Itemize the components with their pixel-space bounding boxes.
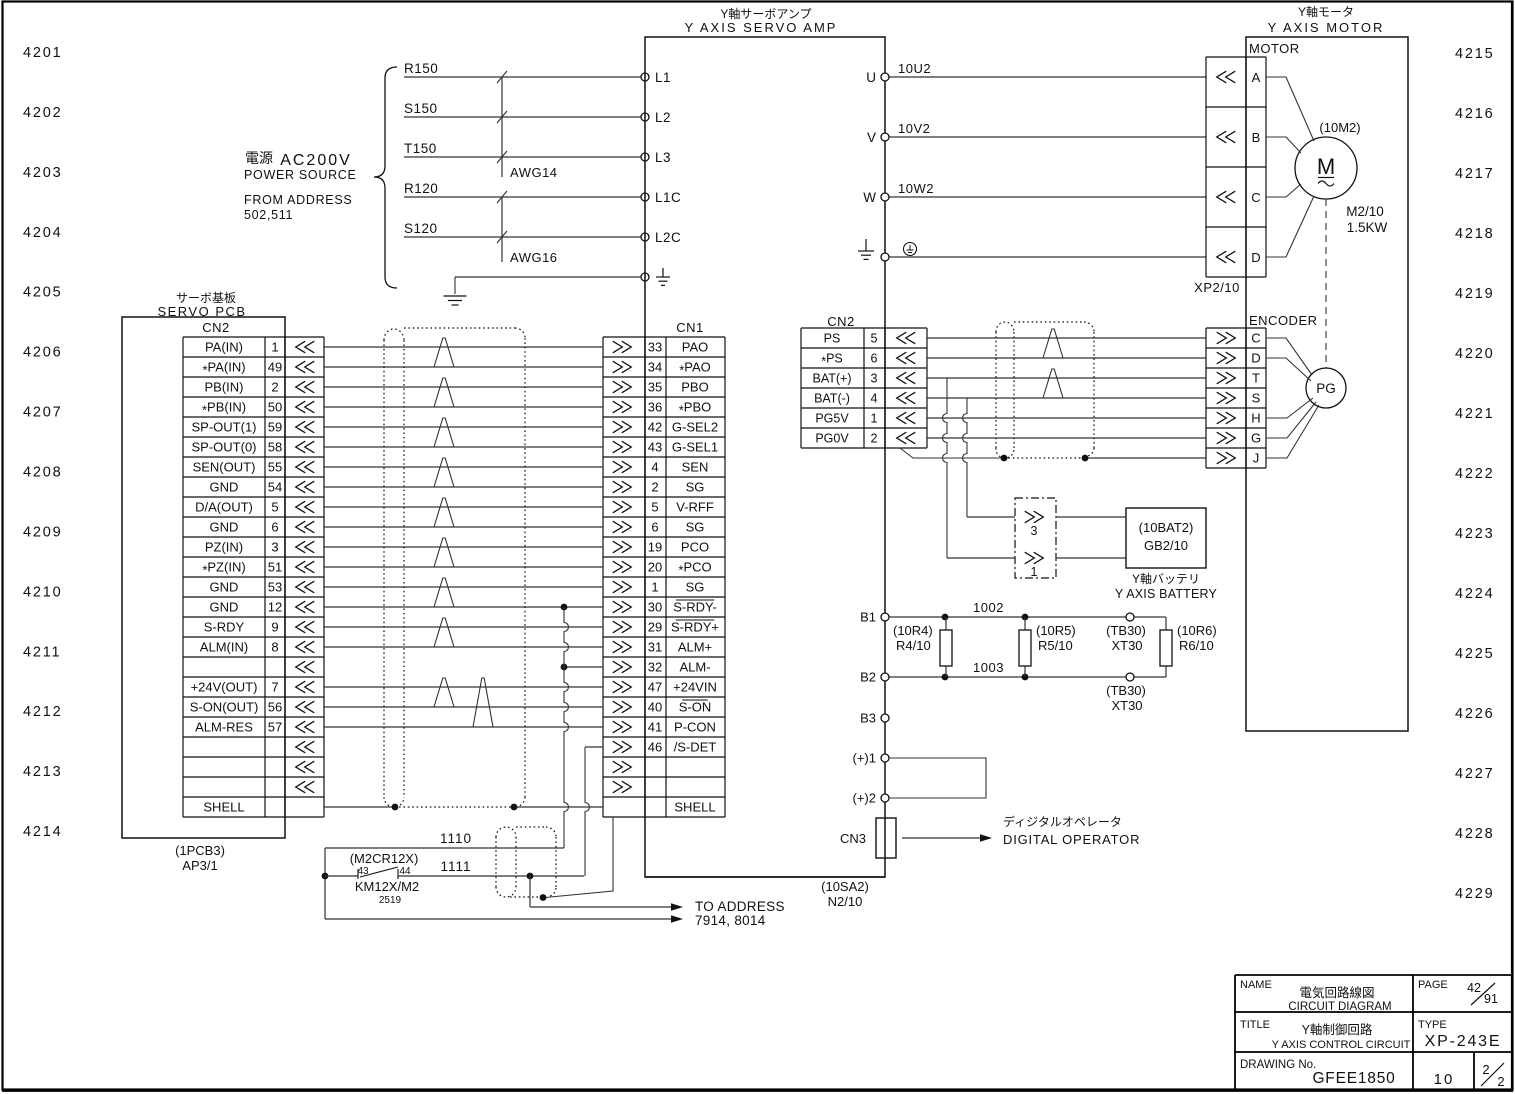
svg-text:M: M: [1317, 154, 1335, 179]
svg-text:ENCODER: ENCODER: [1249, 313, 1318, 328]
svg-text:G-SEL2: G-SEL2: [672, 420, 718, 435]
svg-text:CN1: CN1: [676, 320, 704, 335]
svg-text:4213: 4213: [23, 764, 62, 780]
svg-text:4205: 4205: [23, 285, 62, 301]
svg-text:34: 34: [648, 360, 662, 375]
svg-text:6: 6: [871, 352, 878, 366]
svg-text:L3: L3: [655, 150, 671, 165]
svg-text:P-CON: P-CON: [674, 720, 716, 735]
svg-text:M2/10: M2/10: [1346, 204, 1384, 219]
svg-text:(10R4): (10R4): [893, 623, 933, 638]
svg-text:B2: B2: [860, 670, 876, 685]
svg-text:Y AXIS SERVO AMP: Y AXIS SERVO AMP: [685, 20, 838, 35]
svg-text:SG: SG: [686, 580, 705, 595]
svg-text:5: 5: [271, 500, 278, 515]
svg-text:G-SEL1: G-SEL1: [672, 440, 718, 455]
svg-text:PAO: PAO: [682, 340, 709, 355]
svg-text:POWER SOURCE: POWER SOURCE: [244, 168, 357, 182]
svg-text:U: U: [866, 70, 876, 85]
svg-text:5: 5: [651, 500, 658, 515]
svg-text:XP-243E: XP-243E: [1425, 1033, 1502, 1050]
svg-text:S-ON(OUT): S-ON(OUT): [190, 700, 259, 715]
svg-text:FROM ADDRESS: FROM ADDRESS: [244, 193, 352, 207]
svg-text:(1PCB3): (1PCB3): [175, 843, 225, 858]
svg-text:GND: GND: [210, 600, 239, 615]
svg-text:4220: 4220: [1455, 346, 1494, 362]
svg-text:4212: 4212: [23, 704, 62, 720]
svg-text:1111: 1111: [440, 859, 471, 874]
svg-text:PG0V: PG0V: [815, 432, 849, 446]
svg-text:(10M2): (10M2): [1319, 120, 1360, 135]
svg-text:(M2CR12X): (M2CR12X): [350, 851, 419, 866]
svg-text:4219: 4219: [1455, 286, 1494, 302]
svg-text:2: 2: [871, 432, 878, 446]
svg-text:MOTOR: MOTOR: [1249, 41, 1300, 56]
svg-text:SHELL: SHELL: [674, 800, 715, 815]
svg-text:47: 47: [648, 680, 662, 695]
svg-text:XP2/10: XP2/10: [1194, 280, 1240, 295]
svg-text:J: J: [1253, 451, 1260, 466]
svg-text:55: 55: [268, 460, 282, 475]
svg-text:44: 44: [399, 866, 411, 877]
svg-text:B: B: [1252, 130, 1261, 145]
svg-text:41: 41: [648, 720, 662, 735]
svg-text:Y軸バッテリ: Y軸バッテリ: [1132, 572, 1200, 586]
svg-text:電気回路線図: 電気回路線図: [1299, 985, 1374, 1000]
svg-text:GND: GND: [210, 580, 239, 595]
svg-text:C: C: [1251, 190, 1260, 205]
svg-text:電源: 電源: [245, 150, 273, 166]
svg-text:A: A: [1252, 70, 1261, 85]
svg-text:43: 43: [648, 440, 662, 455]
svg-text:4207: 4207: [23, 405, 62, 421]
svg-text:46: 46: [648, 740, 662, 755]
svg-text:(10BAT2): (10BAT2): [1139, 520, 1194, 535]
svg-text:+24V(OUT): +24V(OUT): [191, 680, 258, 695]
svg-text:2: 2: [271, 380, 278, 395]
svg-text:S-RDY: S-RDY: [204, 620, 245, 635]
svg-text:50: 50: [268, 400, 282, 415]
svg-text:S150: S150: [404, 101, 438, 116]
svg-text:4201: 4201: [23, 45, 62, 61]
svg-text:6: 6: [271, 520, 278, 535]
svg-text:4228: 4228: [1455, 826, 1494, 842]
svg-text:AP3/1: AP3/1: [182, 858, 217, 873]
svg-text:29: 29: [648, 620, 662, 635]
svg-text:BAT(-): BAT(-): [814, 392, 850, 406]
svg-text:42: 42: [1467, 981, 1481, 995]
svg-text:Y AXIS CONTROL CIRCUIT: Y AXIS CONTROL CIRCUIT: [1272, 1039, 1411, 1051]
svg-text:Y軸モータ: Y軸モータ: [1298, 5, 1354, 19]
svg-text:10: 10: [1434, 1071, 1455, 1088]
svg-text:7: 7: [271, 680, 278, 695]
svg-text:9: 9: [271, 620, 278, 635]
svg-text:PB(IN): PB(IN): [205, 380, 244, 395]
svg-text:4225: 4225: [1455, 646, 1494, 662]
svg-text:3: 3: [271, 540, 278, 555]
svg-text:4218: 4218: [1455, 226, 1494, 242]
svg-text:L1C: L1C: [655, 190, 681, 205]
svg-text:1002: 1002: [973, 600, 1004, 615]
svg-text:S-ON: S-ON: [679, 700, 712, 715]
svg-text:SG: SG: [686, 520, 705, 535]
svg-text:2: 2: [1482, 1062, 1489, 1077]
svg-text:PG: PG: [1316, 381, 1336, 396]
svg-text:40: 40: [648, 700, 662, 715]
svg-text:PS: PS: [824, 332, 841, 346]
svg-text:2: 2: [1497, 1074, 1504, 1089]
svg-text:L1: L1: [655, 70, 671, 85]
svg-text:8: 8: [271, 640, 278, 655]
svg-text:B1: B1: [860, 610, 876, 625]
svg-text:TO ADDRESS: TO ADDRESS: [695, 899, 785, 914]
svg-text:S-RDY+: S-RDY+: [671, 620, 719, 635]
svg-text:1: 1: [871, 412, 878, 426]
svg-text:T: T: [1252, 371, 1260, 386]
svg-text:(10SA2): (10SA2): [821, 879, 869, 894]
svg-text:SEN(OUT): SEN(OUT): [193, 460, 256, 475]
svg-text:CN2: CN2: [827, 314, 855, 329]
svg-text:ALM(IN): ALM(IN): [200, 640, 248, 655]
svg-text:CN2: CN2: [202, 320, 230, 335]
svg-text:V-RFF: V-RFF: [676, 500, 714, 515]
svg-text:SHELL: SHELL: [203, 800, 244, 815]
svg-text:SEN: SEN: [682, 460, 709, 475]
svg-text:53: 53: [268, 580, 282, 595]
svg-text:4211: 4211: [23, 644, 61, 660]
svg-text:PZ(IN): PZ(IN): [205, 540, 243, 555]
svg-text:33: 33: [648, 340, 662, 355]
svg-text:51: 51: [268, 560, 282, 575]
svg-text:20: 20: [648, 560, 662, 575]
svg-text:1: 1: [1031, 565, 1038, 579]
svg-text:4217: 4217: [1455, 166, 1494, 182]
svg-text:TITLE: TITLE: [1240, 1019, 1270, 1031]
svg-text:2: 2: [651, 480, 658, 495]
svg-text:4204: 4204: [23, 225, 62, 241]
svg-text:54: 54: [268, 480, 282, 495]
svg-text:2519: 2519: [379, 895, 402, 906]
svg-text:(10R6): (10R6): [1177, 623, 1217, 638]
svg-text:10W2: 10W2: [898, 181, 934, 196]
svg-text:D: D: [1251, 351, 1260, 366]
svg-text:S: S: [1252, 391, 1261, 406]
svg-text:CIRCUIT DIAGRAM: CIRCUIT DIAGRAM: [1288, 1001, 1391, 1013]
svg-text:Y軸サーボアンプ: Y軸サーボアンプ: [720, 7, 811, 21]
svg-text:502,511: 502,511: [244, 208, 293, 222]
svg-text:31: 31: [648, 640, 662, 655]
svg-text:4: 4: [651, 460, 658, 475]
svg-text:10U2: 10U2: [898, 61, 931, 76]
svg-text:T150: T150: [404, 141, 437, 156]
svg-text:Y軸制御回路: Y軸制御回路: [1302, 1022, 1373, 1037]
svg-text:3: 3: [871, 372, 878, 386]
svg-text:6: 6: [651, 520, 658, 535]
svg-text:4215: 4215: [1455, 46, 1494, 62]
svg-text:4229: 4229: [1455, 886, 1494, 902]
svg-text:4209: 4209: [23, 524, 62, 540]
svg-text:ALM-RES: ALM-RES: [195, 720, 253, 735]
svg-text:ALM-: ALM-: [679, 660, 710, 675]
svg-text:D/A(OUT): D/A(OUT): [195, 500, 253, 515]
svg-text:XT30: XT30: [1111, 698, 1142, 713]
svg-text:GB2/10: GB2/10: [1144, 538, 1188, 553]
svg-text:ALM+: ALM+: [678, 640, 712, 655]
svg-text:1110: 1110: [440, 831, 472, 846]
svg-text:58: 58: [268, 440, 282, 455]
svg-text:R4/10: R4/10: [896, 638, 931, 653]
svg-text:19: 19: [648, 540, 662, 555]
svg-text:Y AXIS MOTOR: Y AXIS MOTOR: [1268, 20, 1385, 35]
svg-text:H: H: [1251, 411, 1260, 426]
svg-text:L2: L2: [655, 110, 671, 125]
svg-text:56: 56: [268, 700, 282, 715]
svg-text:R120: R120: [404, 181, 438, 196]
svg-text:SP-OUT(1): SP-OUT(1): [192, 420, 257, 435]
svg-text:4202: 4202: [23, 105, 62, 121]
svg-text:PBO: PBO: [681, 380, 708, 395]
svg-text:91: 91: [1484, 992, 1498, 1006]
svg-text:NAME: NAME: [1240, 979, 1272, 991]
svg-text:AWG16: AWG16: [510, 250, 558, 265]
svg-text:4214: 4214: [23, 824, 62, 840]
svg-text:7914, 8014: 7914, 8014: [695, 913, 766, 928]
svg-text:BAT(+): BAT(+): [812, 372, 851, 386]
svg-text:4224: 4224: [1455, 586, 1494, 602]
svg-text:PG5V: PG5V: [815, 412, 849, 426]
svg-text:42: 42: [648, 420, 662, 435]
svg-text:59: 59: [268, 420, 282, 435]
svg-text:+24VIN: +24VIN: [673, 680, 717, 695]
svg-text:サーボ基板: サーボ基板: [176, 291, 236, 305]
svg-text:Y AXIS BATTERY: Y AXIS BATTERY: [1115, 587, 1218, 601]
svg-text:GFEE1850: GFEE1850: [1312, 1070, 1395, 1087]
svg-text:4216: 4216: [1455, 106, 1494, 122]
svg-text:S-RDY-: S-RDY-: [673, 600, 717, 615]
svg-text:10V2: 10V2: [898, 121, 930, 136]
svg-text:G: G: [1251, 431, 1261, 446]
svg-text:57: 57: [268, 720, 282, 735]
svg-text:S120: S120: [404, 221, 438, 236]
svg-text:36: 36: [648, 400, 662, 415]
svg-text:4223: 4223: [1455, 526, 1494, 542]
svg-text:AWG14: AWG14: [510, 165, 558, 180]
svg-text:W: W: [863, 190, 876, 205]
svg-text:/S-DET: /S-DET: [674, 740, 717, 755]
svg-text:4221: 4221: [1455, 406, 1494, 422]
svg-text:4226: 4226: [1455, 706, 1494, 722]
svg-text:4: 4: [871, 392, 878, 406]
svg-text:4227: 4227: [1455, 766, 1494, 782]
svg-text:GND: GND: [210, 520, 239, 535]
svg-text:4208: 4208: [23, 465, 62, 481]
svg-text:PCO: PCO: [681, 540, 709, 555]
svg-text:R5/10: R5/10: [1038, 638, 1073, 653]
svg-text:3: 3: [1031, 524, 1038, 538]
svg-text:(+)2: (+)2: [853, 791, 876, 806]
svg-text:XT30: XT30: [1111, 638, 1142, 653]
svg-text:D: D: [1251, 250, 1260, 265]
svg-text:32: 32: [648, 660, 662, 675]
svg-text:TYPE: TYPE: [1418, 1019, 1447, 1031]
svg-text:GND: GND: [210, 480, 239, 495]
svg-text:4203: 4203: [23, 165, 62, 181]
svg-text:(TB30): (TB30): [1106, 623, 1146, 638]
svg-text:12: 12: [268, 600, 282, 615]
svg-text:CN3: CN3: [840, 831, 866, 846]
svg-text:R6/10: R6/10: [1179, 638, 1214, 653]
svg-text:L2C: L2C: [655, 230, 681, 245]
svg-text:PA(IN): PA(IN): [205, 340, 243, 355]
svg-text:N2/10: N2/10: [828, 894, 863, 909]
svg-text:V: V: [867, 130, 876, 145]
svg-text:43: 43: [357, 866, 369, 877]
svg-text:DRAWING No.: DRAWING No.: [1240, 1059, 1316, 1071]
svg-text:1: 1: [271, 340, 278, 355]
svg-text:KM12X/M2: KM12X/M2: [355, 879, 419, 894]
svg-text:1: 1: [651, 580, 658, 595]
svg-text:ディジタルオペレータ: ディジタルオペレータ: [1003, 814, 1122, 829]
svg-text:SP-OUT(0): SP-OUT(0): [192, 440, 257, 455]
svg-text:R150: R150: [404, 61, 438, 76]
svg-text:4210: 4210: [23, 584, 62, 600]
svg-text:PAGE: PAGE: [1418, 979, 1448, 991]
svg-text:5: 5: [871, 332, 878, 346]
svg-text:1.5KW: 1.5KW: [1347, 220, 1388, 235]
svg-text:B3: B3: [860, 711, 876, 726]
svg-text:(+)1: (+)1: [853, 751, 876, 766]
svg-text:SG: SG: [686, 480, 705, 495]
svg-text:(10R5): (10R5): [1036, 623, 1076, 638]
svg-text:AC200V: AC200V: [280, 152, 352, 169]
svg-text:30: 30: [648, 600, 662, 615]
svg-text:49: 49: [268, 360, 282, 375]
svg-text:35: 35: [648, 380, 662, 395]
svg-text:(TB30): (TB30): [1106, 683, 1146, 698]
svg-text:1003: 1003: [973, 660, 1004, 675]
svg-text:4222: 4222: [1455, 466, 1494, 482]
svg-text:DIGITAL OPERATOR: DIGITAL OPERATOR: [1003, 832, 1140, 847]
svg-text:C: C: [1251, 331, 1260, 346]
svg-text:4206: 4206: [23, 345, 62, 361]
